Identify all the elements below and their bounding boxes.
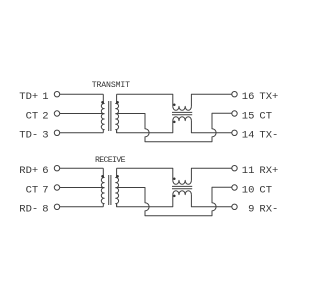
svg-text:CT: CT xyxy=(26,184,39,196)
wire T1 secondary top to choke L1 xyxy=(117,94,173,106)
svg-text:2: 2 xyxy=(42,110,48,122)
pin 11 terminal circle xyxy=(232,166,237,171)
transformer T2 core xyxy=(109,175,111,205)
svg-text:TD+: TD+ xyxy=(19,91,38,103)
pin 9 terminal circle xyxy=(232,204,237,209)
svg-text:15: 15 xyxy=(242,110,255,122)
choke L2 core xyxy=(172,186,192,188)
choke L1 upper polarity dot xyxy=(173,103,176,106)
transformer T2 primary winding (center-tapped) xyxy=(101,168,104,207)
svg-text:6: 6 xyxy=(42,165,48,177)
svg-text:3: 3 xyxy=(42,130,48,142)
wire choke L1 upper to pin 16 xyxy=(191,94,231,106)
wire pin 1 to T1 primary top xyxy=(60,93,104,95)
pin 16 terminal circle xyxy=(232,92,237,97)
svg-text:RX+: RX+ xyxy=(259,165,278,177)
svg-text:RD-: RD- xyxy=(19,204,38,216)
svg-text:10: 10 xyxy=(242,184,255,196)
transformer T2 primary polarity dot xyxy=(101,175,104,178)
svg-text:TX-: TX- xyxy=(259,130,278,142)
transformer T2 secondary polarity dot xyxy=(116,175,119,178)
svg-text:7: 7 xyxy=(42,184,48,196)
svg-text:11: 11 xyxy=(242,165,255,177)
pin 6 terminal circle xyxy=(54,166,59,171)
svg-text:9: 9 xyxy=(248,204,254,216)
choke L1 upper winding xyxy=(173,106,192,110)
pin 10 terminal circle xyxy=(232,185,237,190)
choke L1 lower polarity dot xyxy=(173,121,176,124)
wire T1 secondary bottom to choke L1 lower xyxy=(117,121,173,133)
svg-text:CT: CT xyxy=(259,110,272,122)
pin 14 terminal circle xyxy=(232,130,237,135)
pin 8 terminal circle xyxy=(54,204,59,209)
wire choke L2 lower to pin 9 xyxy=(191,195,231,207)
svg-text:CT: CT xyxy=(26,110,39,122)
pin 2 terminal circle xyxy=(54,111,59,116)
svg-text:16: 16 xyxy=(242,91,255,103)
choke L2 upper polarity dot xyxy=(173,177,176,180)
svg-text:TRANSMIT: TRANSMIT xyxy=(92,81,130,90)
svg-text:1: 1 xyxy=(42,91,48,103)
wire pin 8 to T2 primary bottom xyxy=(60,206,104,208)
wire pin 3 to T1 primary bottom xyxy=(60,132,104,134)
choke L2 lower polarity dot xyxy=(173,195,176,198)
svg-text:14: 14 xyxy=(242,130,255,142)
wire pin 2 to T1 primary center tap xyxy=(60,113,104,115)
svg-text:RX-: RX- xyxy=(259,204,278,216)
pin 15 terminal circle xyxy=(232,111,237,116)
transformer T1 primary polarity dot xyxy=(101,101,104,104)
wire T2 secondary bottom to choke L2 lower xyxy=(117,195,173,207)
transformer T1 core xyxy=(109,101,111,131)
svg-text:RECEIVE: RECEIVE xyxy=(95,156,126,165)
wire pin 7 to T2 primary center tap xyxy=(60,187,104,189)
pin 3 terminal circle xyxy=(54,130,59,135)
pin 7 terminal circle xyxy=(54,185,59,190)
svg-text:CT: CT xyxy=(259,184,272,196)
choke L1 lower winding xyxy=(173,117,192,121)
pin 1 terminal circle xyxy=(54,92,59,97)
choke L1 core xyxy=(172,112,192,114)
wire T2 secondary center tap to pin 10 (with crossover hops) xyxy=(116,187,232,215)
svg-text:8: 8 xyxy=(42,204,48,216)
choke L2 lower winding xyxy=(173,191,192,195)
svg-text:TX+: TX+ xyxy=(259,91,278,103)
svg-text:RD+: RD+ xyxy=(19,165,38,177)
choke L2 upper winding xyxy=(173,180,192,184)
transformer T1 secondary winding (center-tapped) xyxy=(116,94,119,133)
transformer T2 secondary winding (center-tapped) xyxy=(116,168,119,207)
wire pin 6 to T2 primary top xyxy=(60,167,104,169)
wire T1 secondary center tap to pin 15 (with crossover hops) xyxy=(116,113,232,141)
wire choke L1 lower to pin 14 xyxy=(191,121,231,133)
svg-text:TD-: TD- xyxy=(19,130,38,142)
transformer T1 primary winding (center-tapped) xyxy=(101,94,104,133)
transformer T1 secondary polarity dot xyxy=(116,101,119,104)
wire T2 secondary top to choke L2 xyxy=(117,168,173,180)
wire choke L2 upper to pin 11 xyxy=(191,168,231,180)
